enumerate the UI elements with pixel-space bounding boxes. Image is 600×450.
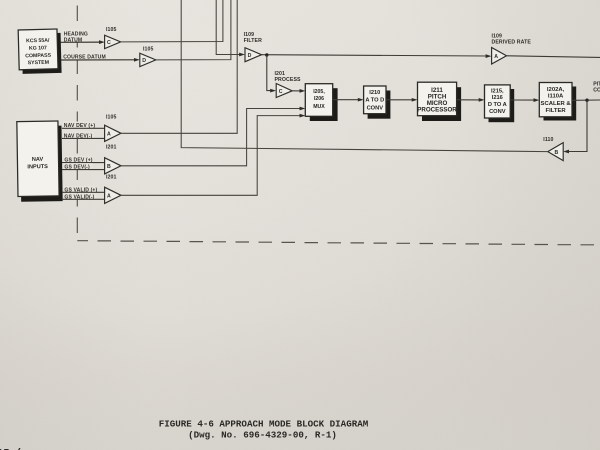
svg-text:A TO D: A TO D	[365, 98, 384, 104]
svg-text:D: D	[248, 53, 252, 59]
wire I201 process out into MUX	[292, 89, 305, 93]
svg-text:B: B	[555, 150, 559, 156]
wire gs valid -	[62, 198, 105, 200]
label GS VALID (+)	[64, 186, 98, 194]
page number fragment bottom-left	[0, 448, 22, 450]
amp I109 FILTER D	[244, 32, 263, 62]
label NAV DEV (+)	[63, 122, 95, 130]
amp I105 D (course)	[140, 47, 156, 67]
wire gs valid +	[62, 191, 105, 193]
wire I109 filter output to derived-rate amp	[262, 54, 492, 58]
wire gs valid output to MUX input 3	[121, 114, 306, 196]
amp I105 C (heading)	[105, 27, 121, 49]
svg-text:FIGURE 4-6 APPROACH MODE BLOCK: FIGURE 4-6 APPROACH MODE BLOCK DIAGRAM	[159, 419, 369, 430]
svg-text:I105: I105	[143, 47, 154, 53]
label GS DEV (+)	[64, 156, 93, 164]
svg-text:I216: I216	[492, 95, 503, 101]
junction node on pitch command line	[585, 99, 588, 102]
wire gs dev output to MUX input 2	[121, 107, 306, 166]
dashed mode boundary vertical	[76, 6, 78, 241]
label PITCH COMMAND (clipped at edge)	[593, 82, 600, 94]
amp I110 B (feedback, points left)	[543, 137, 563, 161]
svg-text:I105: I105	[106, 27, 117, 33]
svg-text:KG 107: KG 107	[29, 45, 47, 51]
wire junction down into I110 B amp	[563, 100, 587, 153]
label HEADING DATUM	[63, 29, 90, 43]
label GS VALID (-)	[64, 193, 97, 200]
box KCS 55A / KG 107 compass system	[18, 29, 61, 74]
svg-text:I110: I110	[543, 137, 553, 143]
svg-text:COMPASS: COMPASS	[25, 53, 52, 60]
label COURSE DATUM	[63, 53, 107, 61]
svg-text:D: D	[142, 58, 146, 64]
box NAV INPUTS	[17, 121, 63, 202]
wire I110 output left and up to top edge	[181, 0, 548, 152]
svg-text:A: A	[107, 131, 111, 137]
box I211 PITCH MICRO PROCESSOR	[417, 82, 461, 121]
svg-text:FILTER: FILTER	[546, 108, 567, 114]
wire nav dev -	[62, 137, 105, 139]
svg-text:I201: I201	[106, 175, 117, 181]
wire nav dev amp output up to top edge	[121, 0, 238, 133]
amp I105 A (nav dev)	[105, 115, 121, 142]
svg-text:(Dwg. No. 696-4329-00, R-1): (Dwg. No. 696-4329-00, R-1)	[188, 429, 337, 440]
box I202A I110A SCALER & FILTER	[539, 83, 576, 121]
svg-text:COMMAND: COMMAND	[593, 88, 600, 94]
junction node after I109 filter	[265, 53, 268, 56]
svg-text:PROCESS: PROCESS	[275, 77, 302, 83]
svg-text:FILTER: FILTER	[244, 38, 263, 44]
svg-text:C: C	[279, 89, 283, 95]
wire from top edge into I109 filter	[216, 0, 245, 56]
amp I201 PROCESS C	[275, 71, 302, 98]
wire heading datum into amp C	[61, 40, 105, 44]
svg-text:I206: I206	[314, 96, 324, 102]
box I210 A TO D CONV	[364, 86, 391, 119]
svg-text:NAV: NAV	[32, 157, 44, 163]
svg-text:A: A	[107, 194, 111, 200]
box I215 I216 D TO A CONV	[485, 85, 515, 122]
svg-text:MUX: MUX	[313, 104, 325, 110]
svg-text:I210: I210	[369, 90, 380, 96]
svg-text:I201: I201	[106, 145, 117, 151]
svg-text:CONV: CONV	[489, 109, 506, 115]
wire derived-rate output to right edge	[506, 56, 600, 58]
svg-text:D TO A: D TO A	[488, 102, 507, 108]
dashed mode boundary corner+horizontal	[77, 241, 594, 245]
amp I201 A (gs valid)	[105, 175, 121, 204]
caption drawing number	[188, 429, 337, 440]
wire amp D output up to top edge	[156, 0, 231, 60]
svg-text:I205,: I205,	[313, 89, 325, 95]
svg-text:C: C	[107, 40, 111, 46]
svg-text:I202A,: I202A,	[547, 87, 565, 93]
wire MUX out to A/D	[333, 98, 364, 102]
label GS DEV (-)	[64, 163, 93, 170]
wire A/D out to processor	[386, 98, 418, 102]
svg-text:B: B	[107, 164, 111, 170]
svg-text:I215,: I215,	[491, 89, 504, 95]
svg-text:CONV: CONV	[367, 105, 384, 111]
wire gs dev +	[62, 162, 105, 164]
wire nav dev +	[62, 127, 105, 129]
amp I109 DERIVED RATE A	[492, 34, 532, 65]
svg-text:A: A	[494, 54, 498, 60]
caption figure title	[159, 419, 369, 430]
svg-text:PROCESSOR: PROCESSOR	[417, 107, 457, 114]
wire course datum into amp D	[61, 58, 140, 62]
svg-text:DERIVED RATE: DERIVED RATE	[492, 40, 532, 46]
wire amp C output up to top edge	[121, 0, 223, 42]
label NAV DEV (-)	[63, 132, 94, 140]
wire processor out to D/A	[457, 98, 485, 102]
svg-text:SCALER &: SCALER &	[541, 101, 572, 107]
svg-text:SYSTEM: SYSTEM	[28, 60, 49, 67]
svg-text:INPUTS: INPUTS	[27, 164, 48, 170]
amp I201 B (gs dev)	[105, 145, 121, 174]
svg-text:I105: I105	[106, 115, 117, 121]
svg-text:I110A: I110A	[548, 94, 564, 100]
svg-text:KCS 55A/: KCS 55A/	[26, 38, 50, 45]
wire D/A out to scaler	[510, 98, 539, 102]
wire junction down into I201 process amp	[267, 55, 276, 92]
box I205 I206 MUX	[305, 84, 337, 121]
wire gs dev -	[62, 169, 105, 171]
wire scaler output to right edge (pitch command)	[572, 99, 600, 101]
